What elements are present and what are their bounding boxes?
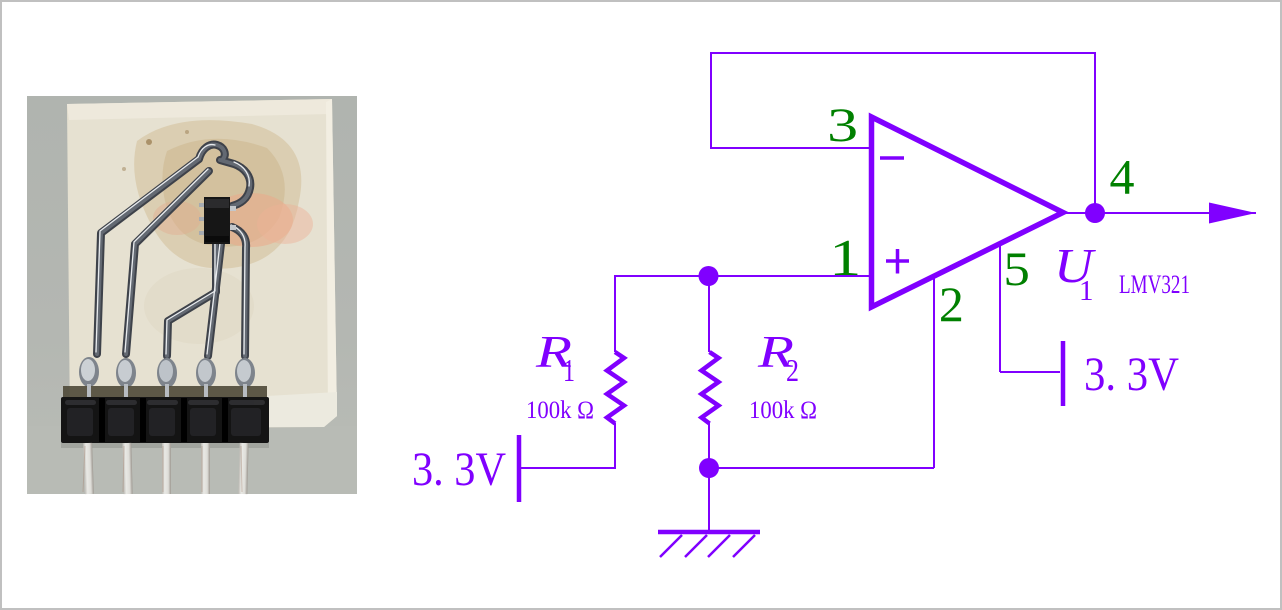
svg-text:1: 1 <box>563 352 575 388</box>
svg-text:3. 3V: 3. 3V <box>1084 348 1179 401</box>
svg-text:1: 1 <box>829 230 861 287</box>
svg-text:100k Ω: 100k Ω <box>526 397 594 424</box>
svg-text:3: 3 <box>827 99 858 152</box>
svg-text:5: 5 <box>1003 243 1030 296</box>
svg-text:3. 3V: 3. 3V <box>412 443 506 496</box>
svg-text:2: 2 <box>786 352 799 388</box>
svg-text:1: 1 <box>1079 275 1094 307</box>
svg-text:4: 4 <box>1110 149 1135 205</box>
svg-text:2: 2 <box>939 276 964 332</box>
svg-text:LMV321: LMV321 <box>1119 270 1190 299</box>
svg-text:100k Ω: 100k Ω <box>749 397 817 424</box>
